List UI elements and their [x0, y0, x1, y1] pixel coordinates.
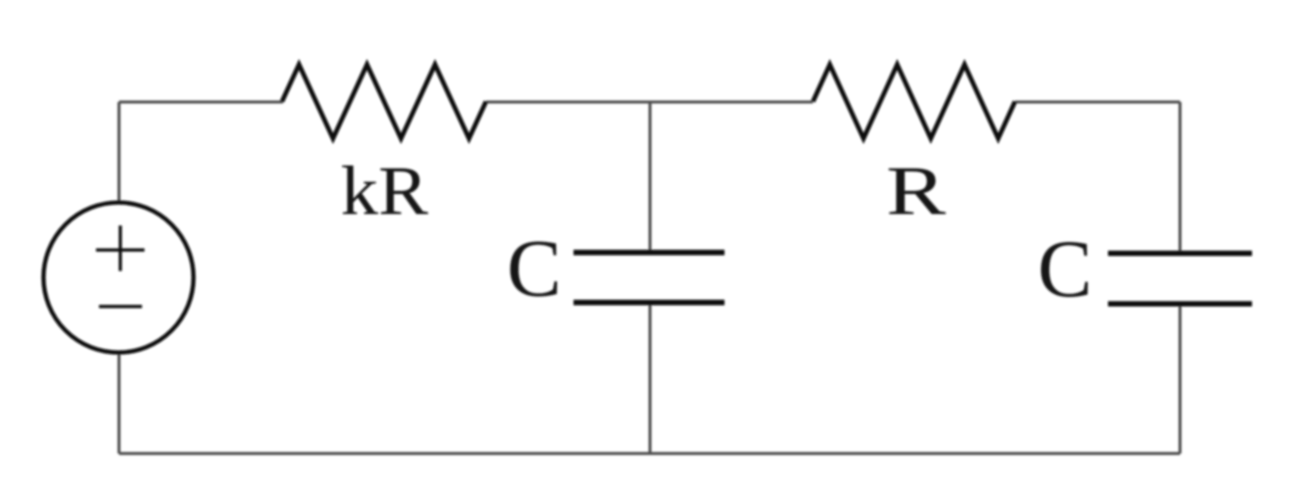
svg-text:kR: kR: [341, 151, 429, 229]
svg-text:C: C: [507, 223, 562, 314]
svg-text:C: C: [1038, 223, 1093, 314]
svg-text:R: R: [886, 152, 946, 229]
